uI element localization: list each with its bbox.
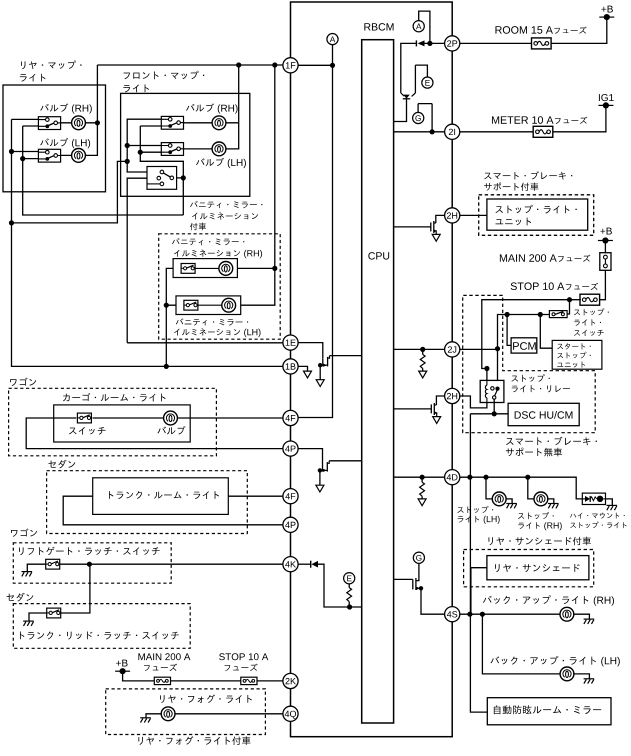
wire backup RH ground [573,614,589,619]
wire vanity RH internal [195,267,219,269]
junction front top-throw entry [125,159,130,164]
junction front bottom-pin sw2 [138,150,143,155]
junction 2J node [495,346,500,351]
label liftgate latch switch [19,547,160,555]
terminal IG1 [598,104,613,106]
wire rear LH bulb output [60,65,98,155]
PCM box [511,338,537,353]
label front bulb RH [186,103,214,111]
connector 4Q [283,706,298,721]
ground arrow 2H-1 [432,234,440,241]
wire front bottom-pin bus [140,126,183,215]
wire gate from CPU 2H-2 [394,408,432,410]
label rear sunshade [495,564,580,572]
connector 4P upper [283,441,298,456]
ground arrow 1B [304,371,312,378]
label smart-brake-not line2 [506,448,562,457]
bulb cargo [164,411,178,425]
fuse METER 10A [533,126,553,137]
circled E lower [344,573,355,584]
label sedan 1 [48,460,75,469]
connector 1E [283,335,298,350]
circled A top [413,21,424,32]
transistor 4S [412,579,414,589]
wire to stop light switch [567,300,570,314]
rear map light box [3,85,106,192]
circled G lower [413,552,424,563]
ground arrow 2J [419,371,427,378]
wire front sw3 top throw [127,161,160,172]
wire rear map bottom-pin bus [23,126,184,215]
terminal +B mid [598,240,613,242]
connector 4P lower [283,517,298,532]
label stop RH line1 [518,512,554,519]
connector 4S [445,607,460,622]
bulb backup LH [560,667,574,681]
junction front top-pin sw2 [125,143,130,148]
label rear bulb RH [40,103,68,111]
wire 4S mosfet source [421,588,445,614]
wire front bulbs output link [183,123,274,269]
wire rear LH top pin [12,151,40,153]
wire 2J to CPU [394,348,445,350]
label auto-dimming mirror [494,705,601,714]
wire E to SCR [414,65,416,93]
wire 4D resistor top [421,477,423,482]
label backup LH [491,656,596,665]
wire start-stop feed [540,315,552,349]
wire 1B stub ground [298,366,308,371]
label wagon 2 [11,528,37,536]
wire 2J resistor bottom [422,368,424,372]
switch trunk lid latch [47,608,61,618]
lamp high-mount stop LED [582,493,605,504]
wire 1E mosfet source ground [319,365,321,379]
wire 4P to gate [298,449,323,464]
label smart-brake-not line1 [506,437,597,446]
junction relay at DSC wire [492,411,497,416]
sunshade dashed box [464,550,594,587]
label high-mount line1 [570,513,625,519]
wire METER fuse [460,105,606,131]
label STOP 10A line1 [219,653,245,660]
front map light box [121,93,250,196]
connector 1F [283,58,298,73]
label stop LH line1 [457,506,493,513]
relay stop light [480,380,504,402]
wire liftgate ground [27,564,45,571]
connector 2P [445,36,460,51]
connector 4D [445,470,460,485]
label front map light line1 [124,71,205,80]
label relay line1 [511,374,549,382]
diode 4K [310,561,312,568]
wire 4K input [298,563,311,565]
connector 2H upper [445,208,460,223]
switch stop light [549,311,567,318]
label rear map light line2 [20,74,46,82]
wire G to drain [416,563,419,580]
label MAIN 200A fuse right [500,254,525,261]
label RBCM [364,23,393,30]
wire A hook [419,11,430,43]
label rear fog light [160,694,252,703]
label rear map light line1 [21,60,82,69]
label vanity RH line2 [174,249,240,256]
switch front map RH [161,116,183,129]
junction resistor at 2J wire [420,347,425,352]
wire trunk lid switch riser [61,564,90,613]
wire 2H-2 to relay coil [460,396,487,408]
trunk room light box [93,478,229,515]
wire 2J resistor top [422,349,424,354]
label vanity-area line1 [190,201,262,208]
label IG1 [599,94,614,101]
label trunk lid latch switch [20,631,179,639]
label +B top [601,6,612,13]
cargo dashed box [9,388,217,456]
vanity RH unit box [173,259,237,278]
label stop RH line2 [518,522,539,529]
wire SCR output to CPU [394,99,407,122]
ground arrow 2H-2 [433,417,441,424]
junction vanity LH switch [164,303,169,308]
switch vanity RH [181,264,195,274]
vanity dashed box [159,234,281,339]
switch cargo [77,413,91,423]
transistor 1E output [322,358,324,366]
fuse STOP 10A 2K [241,677,257,684]
wire stop RH ground [547,499,554,503]
ground high-mount [607,505,618,510]
fuse ROOM 15A [532,38,552,49]
label vanity LH line1 [176,318,248,325]
wire rear fog [146,714,283,718]
label vanity RH line1 [172,238,244,245]
label METER fuse [492,116,528,123]
cargo solid box [54,405,191,442]
trunk room dashed box [47,471,248,534]
wire top-throw link to front box [12,161,128,223]
ground backup LH [584,679,595,684]
wire stop LH ground [506,499,512,503]
ground rear fog [140,718,151,723]
switch front map 3-position [147,167,177,190]
junction resistor at 4D wire [420,475,425,480]
wire front top-pin bus [127,119,162,161]
label MAIN 200A line1 [138,653,161,660]
wire rear RH bulb output [60,122,98,124]
junction rear bulbs output [95,120,100,125]
wire front sw3 middle throw [127,178,157,343]
connector 4K [283,557,298,572]
circled G upper [413,112,424,123]
wire G hook upper [418,104,432,132]
label wagon 1 [10,378,36,386]
wire node-1F feed [97,64,332,66]
switch liftgate latch [46,559,60,569]
bulb stop LH [492,492,506,506]
bulb vanity LH [222,298,236,312]
start-stop unit box [552,340,602,369]
liftgate dashed box [13,543,171,583]
switch rear map LH [38,149,60,162]
wire ROOM fuse [460,17,607,43]
wire E to resistor [348,584,350,588]
wire trunk room loop [63,496,283,525]
label ROOM fuse [495,26,527,34]
label DSC HU/CM [515,411,536,418]
junction rear top-pin LH [9,149,14,154]
fuse MAIN 200A 2K [154,677,170,684]
junction front sw3 common [181,175,186,180]
label cargo room light [63,393,166,402]
junction 4S riser [467,612,472,617]
junction vanity supply at 1F wire [272,62,277,67]
connector 4F upper [283,410,298,425]
label PCM [513,342,536,350]
wire backup LH drop [482,614,560,674]
wire front sw3 common [172,177,184,179]
ground trunk lid [23,621,34,626]
sunshade box [487,556,589,580]
wire 2K feed [123,671,283,681]
wire STOP fuse distribution [482,300,581,381]
wire vanity switches to 1B [166,268,183,366]
trunk lid dashed box [13,604,190,649]
connector 4F lower [283,489,298,504]
junction latch switches [87,562,92,567]
switch rear map RH [38,117,60,130]
label start-stop line3 [557,362,585,368]
wire liftgate switch to 4K [60,563,283,565]
ground arrow 1E mosfet [316,380,324,387]
label STOP 10A fuse right [511,282,539,290]
label stop LH line2 [458,516,479,523]
wire high-mount ground [606,499,613,505]
bulb front map LH [212,142,226,156]
wire DSC to 4D riser [470,414,487,712]
bulb rear fog [161,707,175,721]
wire 4S distribution [460,613,561,615]
switch vanity LH [184,300,198,310]
auto-dimming mirror box [487,698,611,725]
connector 2I [445,124,460,139]
resistor 2J [420,354,425,368]
wire 1E to gate [298,343,323,359]
label stop light switch line1 [574,308,609,315]
terminal +B top [599,16,614,18]
wire rear map top-pin bus [12,119,284,366]
wire MAIN to STOP fuse [599,270,606,299]
junction coil feed [484,366,489,371]
wire 4D distribution [460,477,582,499]
label stop light unit line1 [495,205,576,214]
wire backup LH ground [573,674,589,679]
junction backup LH branch [480,612,485,617]
label stop light switch line2 [574,319,601,325]
ground arrow 4D [418,499,426,506]
junction stop RH [525,475,530,480]
stop light unit dashed box [479,195,594,236]
transistor 2H-1 [430,222,432,231]
wire E hook upper [415,65,427,77]
label MAIN 200A line2 [144,664,177,671]
junction G at 2I wire [430,129,435,134]
circled E upper [422,77,433,88]
junction front-map output at 1F wire [236,62,241,67]
connector 2H lower [445,388,460,403]
junction stop light switch feed [567,297,572,302]
DSC box [508,403,579,425]
wire 4D to CPU [394,476,445,478]
wire 4D resistor bottom [421,496,423,500]
wire stop switch output [498,315,550,389]
label vanity LH line2 [174,328,240,335]
label stop light unit line2 [495,218,531,226]
label front bulb LH [196,158,224,166]
wire vanity LH internal [198,304,222,306]
ground arrow 4P mosfet [316,485,324,492]
transistor 4P output [322,464,324,472]
CPU box [362,40,394,723]
wire rear LH bottom pin [23,158,39,160]
wire vanity supply riser [236,65,275,305]
wire 2I to CPU [394,131,445,133]
transistor SCR 2P [401,93,416,96]
wire stop LH drop [486,477,493,499]
circled A left [327,34,338,45]
wire stop RH drop [528,477,535,499]
wire 2H-2 drain [436,396,444,405]
wire +B to MAIN fuse [604,241,606,253]
wire 2J external [460,348,498,350]
junction E at 4K wire [347,604,352,609]
junction PCM branch [505,312,510,317]
junction node A at 1F wire [330,63,335,68]
label smart-brake-equipped line1 [484,171,572,179]
bulb stop RH [534,492,548,506]
label trunk room light [109,491,219,499]
label rear fog applicable [138,736,250,745]
bulb rear map LH [72,149,86,163]
wire gate from CPU 2H-1 [394,226,431,228]
wire sunshade drop [471,568,487,615]
ground stop RH [548,504,559,509]
wire node A riser [298,45,333,418]
fuse MAIN 200A right [600,253,611,271]
connector 2K [283,673,298,688]
vanity LH unit box [176,296,241,315]
diode 2P [415,40,417,46]
connector 1B [283,359,298,374]
junction rear bottom-pin LH [20,156,25,161]
label +B mid [600,228,611,235]
wire relay output to DSC [470,399,508,414]
junction stop LH [483,475,488,480]
ground liftgate [22,572,33,577]
ground stop LH [506,504,517,509]
transistor 2H-2 [430,404,432,413]
wire resistor to 4K wire [348,602,350,607]
junction vanity bulbs output [272,266,277,271]
junction start-stop branch [538,312,543,317]
wire 1E feed [127,342,283,344]
label backup RH [483,595,588,604]
wire front map output riser [238,65,240,123]
wire PCM feed [507,315,511,346]
label relay line2 [512,385,570,392]
wire trunk lid ground [29,613,47,621]
wire 4P mosfet source ground [319,470,321,485]
fuse STOP 10A right [580,294,600,305]
label smart-brake-equipped line2 [484,182,538,190]
label vanity-area line3 [190,223,206,231]
label sedan 2 [7,593,34,602]
junction 4D riser [467,475,472,480]
resistor E [347,588,352,602]
stop light unit box [487,199,588,230]
junction rear top-pin branch [9,220,14,225]
wire 2H-1 drain [436,215,445,223]
label vanity-area line2 [192,212,258,219]
bulb front map RH [212,116,226,130]
wire diode to SCR [401,43,417,93]
wire cargo loop [26,418,283,449]
bulb vanity RH [219,262,233,276]
wire gate from CPU 4S [394,578,413,580]
wire 4K to CPU [318,564,362,607]
label STOP 10A line2 [225,664,258,671]
label CPU [368,252,389,259]
label high-mount line2 [570,522,626,529]
junction A-hook at 2P wire [427,41,432,46]
bulb backup RH [560,607,574,621]
wire 2H-1 to stop light unit [460,214,487,216]
wire 2P diode [424,42,444,44]
junction vanity at 1B wire [164,364,169,369]
label cargo bulb [157,426,185,434]
RBCM module box [291,2,453,737]
connector 2J [445,342,460,357]
bulb rear map RH [72,116,86,130]
label sunshade equipped [489,537,591,546]
smart-brake-not-equipped dashed region [463,295,596,432]
label start-stop line2 [557,352,590,359]
switch front map LH [161,143,183,156]
label front map light line2 [123,84,149,92]
terminal +B 2K [115,670,130,672]
ground backup RH [584,619,595,624]
label stop light switch line3 [574,330,604,336]
label rear bulb LH [40,138,68,146]
resistor 4D [420,482,425,496]
rear fog dashed box [106,689,266,735]
label cargo switch [69,427,106,435]
label +B 2K [116,660,127,667]
label start-stop line1 [557,343,590,349]
